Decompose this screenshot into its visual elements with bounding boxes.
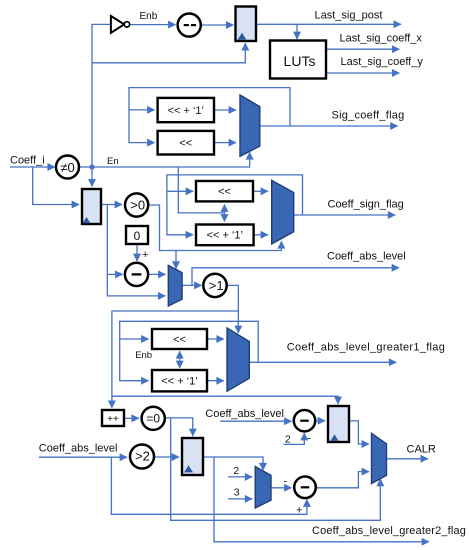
svg-text:<<: <<	[179, 138, 192, 150]
svg-text:>0: >0	[130, 198, 145, 213]
svg-text:Coeff_i: Coeff_i	[10, 155, 45, 167]
svg-text:>1: >1	[209, 278, 224, 293]
svg-text:3: 3	[234, 487, 240, 499]
svg-text:Coeff_abs_level: Coeff_abs_level	[327, 250, 406, 262]
svg-text:>2: >2	[135, 449, 150, 464]
svg-text:+: +	[296, 505, 302, 517]
svg-text:LUTs: LUTs	[284, 53, 316, 69]
svg-text:2: 2	[233, 465, 239, 477]
svg-text:Last_sig_post: Last_sig_post	[315, 10, 383, 22]
svg-text:≠0: ≠0	[60, 160, 74, 175]
svg-text:<<: <<	[218, 186, 231, 198]
svg-text:<<: <<	[173, 334, 186, 346]
svg-text:Enb: Enb	[135, 350, 152, 361]
svg-text:Sig_coeff_flag: Sig_coeff_flag	[332, 110, 405, 122]
svg-text:<< + ‘1’: << + ‘1’	[161, 376, 197, 388]
svg-text:0: 0	[134, 229, 141, 243]
svg-text:CALR: CALR	[407, 444, 436, 456]
svg-text:Coeff_abs_level: Coeff_abs_level	[39, 443, 118, 455]
svg-text:En: En	[107, 156, 119, 167]
svg-text:Coeff_abs_level_greater2_flag: Coeff_abs_level_greater2_flag	[312, 525, 466, 537]
svg-text:=0: =0	[146, 411, 160, 425]
svg-text:-: -	[307, 433, 311, 445]
svg-text:Last_sig_coeff_y: Last_sig_coeff_y	[341, 56, 424, 68]
svg-text:-: -	[284, 476, 288, 488]
svg-text:2: 2	[285, 434, 291, 446]
svg-text:Coeff_abs_level: Coeff_abs_level	[205, 408, 284, 420]
svg-text:++: ++	[107, 414, 119, 425]
svg-text:Coeff_sign_flag: Coeff_sign_flag	[328, 199, 404, 211]
svg-text:Enb: Enb	[140, 11, 158, 22]
svg-text:<< + ‘1’: << + ‘1’	[207, 230, 243, 242]
svg-text:+: +	[142, 249, 148, 261]
svg-text:<< + ‘1’: << + ‘1’	[168, 105, 204, 117]
svg-text:Last_sig_coeff_x: Last_sig_coeff_x	[340, 33, 423, 45]
svg-text:Coeff_abs_level_greater1_flag: Coeff_abs_level_greater1_flag	[287, 342, 445, 354]
